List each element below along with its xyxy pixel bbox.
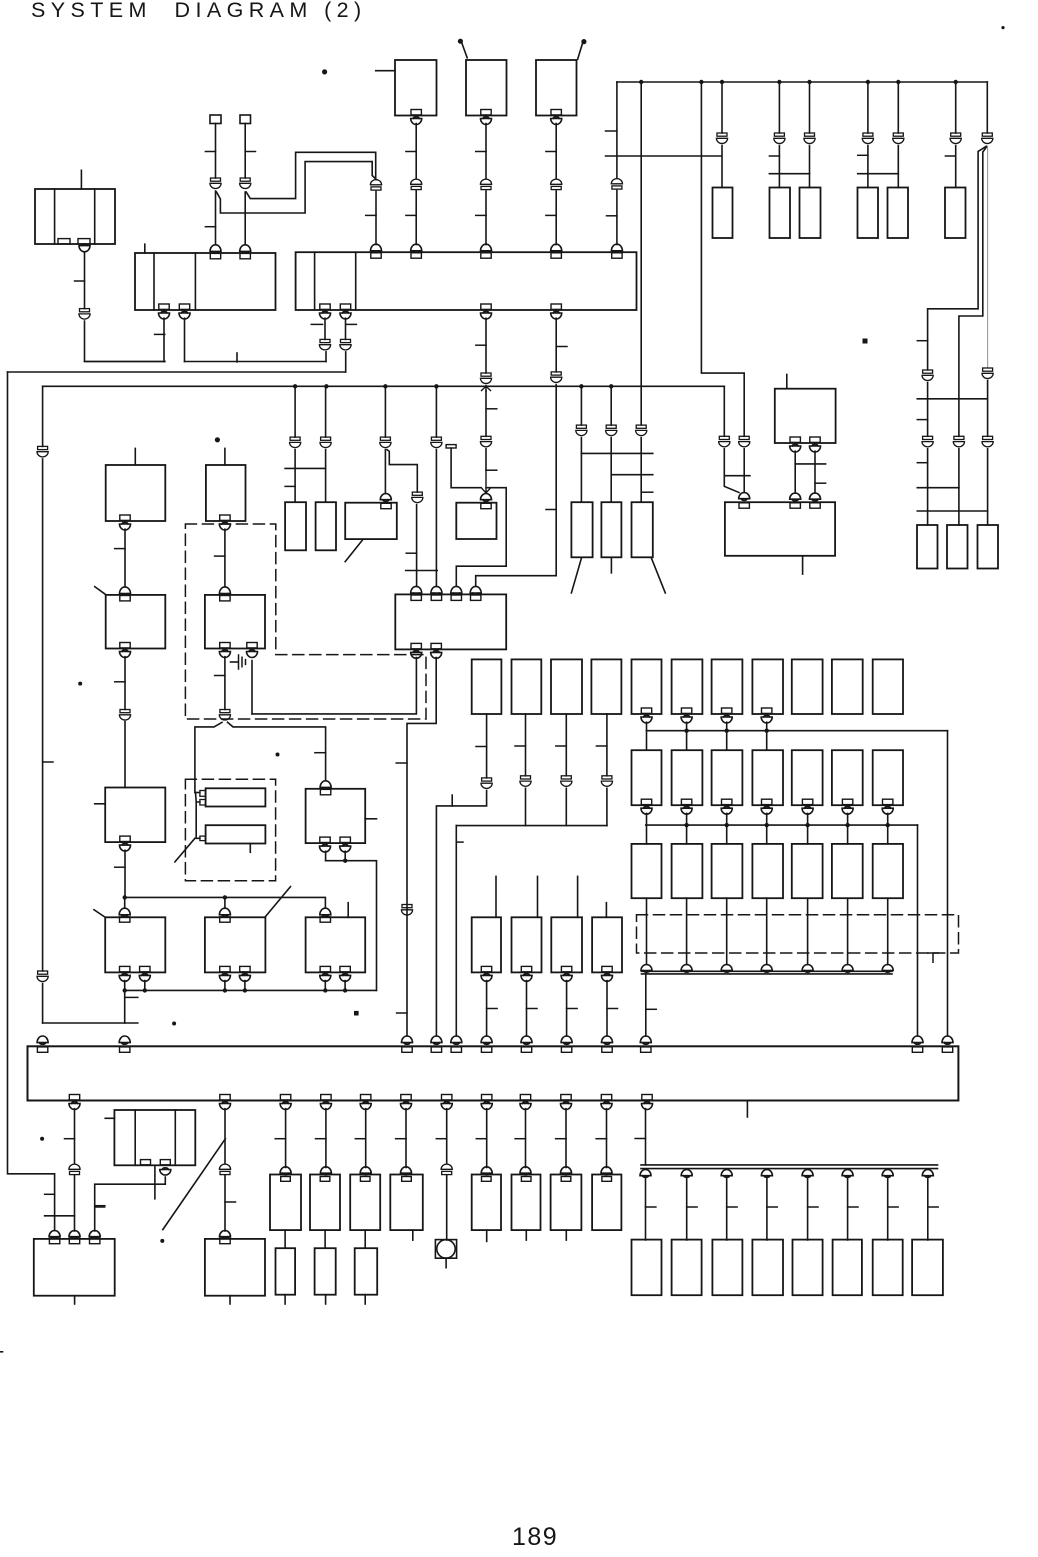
merge crossover x486 y490	[481, 470, 490, 493]
connector arch into main box x607	[602, 1036, 613, 1044]
bottom box x550	[551, 1175, 582, 1231]
fuse box x868	[858, 188, 879, 239]
connector arch on double bus x847	[842, 965, 853, 973]
pin bottom of main box x647	[642, 1095, 653, 1110]
lower box x354	[355, 1248, 378, 1295]
bottom right box x752	[752, 1240, 783, 1296]
bus line y386 (main feed)	[43, 385, 725, 387]
top supply bus	[617, 81, 987, 83]
inline connector on wire x611	[606, 425, 617, 436]
pin bottom of block L x184	[179, 304, 190, 319]
pin bottom of main box x606	[601, 1095, 612, 1110]
connector arch below double bus x847	[842, 1170, 853, 1178]
marker dot x80	[78, 682, 82, 686]
inline connector on wire x345	[340, 339, 351, 350]
pin bottom of block L x164	[159, 304, 170, 319]
fuse box x809	[800, 188, 821, 239]
wire x616 from top bus corner	[616, 82, 618, 178]
thin box G2	[206, 825, 266, 843]
link wire y1215.8	[45, 1215, 75, 1217]
pin P1 of top-left box	[58, 239, 70, 244]
pin on main box x947	[942, 1047, 952, 1052]
stub on box I top right	[347, 903, 349, 918]
load box row2 x752	[752, 750, 783, 805]
wire I x325 to bus y990	[324, 981, 326, 991]
bottom right box x792	[793, 1240, 823, 1296]
tick on wire x285 y1138	[275, 1138, 285, 1140]
sensor box K	[472, 917, 501, 972]
branch wire right to box H	[228, 722, 326, 779]
junction dot on bus y825	[805, 823, 809, 827]
pointer line at box E	[265, 887, 290, 917]
control box B2	[205, 595, 265, 649]
tick on wire x815	[815, 482, 826, 484]
pin on main box x407	[402, 1047, 412, 1052]
tick on wire x766 y1207	[767, 1206, 777, 1208]
inline connector on wire x486	[480, 179, 491, 189]
wire x744 down	[743, 449, 745, 493]
divider in junction block R	[314, 252, 316, 310]
wire x325 below box H	[325, 851, 327, 860]
wire x807 to double bus	[807, 898, 809, 964]
junction dot on bus y730	[684, 729, 688, 733]
pointer line at flat control box	[345, 540, 362, 561]
wire x647 through double bus	[645, 1109, 647, 1165]
wire x566 to main box	[566, 981, 568, 1036]
control box A	[106, 465, 166, 521]
wire x42 long run	[42, 459, 44, 971]
pin bottom of row2 box x847	[842, 799, 853, 814]
load box row1 x551	[551, 659, 582, 714]
small tick mark y1205	[96, 1205, 105, 1207]
load box row1 x872	[873, 659, 903, 714]
divider in junction block R	[355, 252, 357, 310]
wire x726 to bus y825	[726, 813, 728, 844]
junction dot on top bus	[866, 80, 870, 84]
wire x417 down	[416, 505, 418, 587]
wire x988 from top bus corner	[986, 82, 988, 133]
pin bottom of box I x325	[320, 966, 331, 981]
junction dot on bus y386	[293, 384, 297, 388]
wire x525 to main box	[526, 981, 528, 1036]
pin on main box x566	[561, 1047, 571, 1052]
stub below lamp symbol	[445, 1258, 447, 1267]
wire x456 from bus to main box	[455, 826, 457, 1036]
dashed option group box	[637, 915, 959, 953]
load box row3 x831	[832, 844, 863, 898]
stub on relay box TR top	[786, 375, 788, 389]
inline connector on wire x486 y778	[481, 778, 492, 788]
connector arch on ecu box x744	[739, 493, 750, 501]
wire x385 to control box	[384, 450, 386, 494]
wire x646 to bus y825	[646, 813, 648, 844]
wire x809 from top bus	[809, 82, 811, 133]
wire x525 to bus y825.6	[525, 788, 527, 825]
connector arch on bottom box x406	[401, 1167, 412, 1175]
link wire y475.7	[725, 475, 750, 477]
control box D	[105, 917, 165, 972]
tick on wire x556	[546, 151, 556, 153]
pin on wide box R top x616	[611, 244, 622, 258]
load box row1 x591	[591, 659, 621, 714]
wire x125 below A2	[124, 657, 126, 710]
wire x295 from bus2	[294, 386, 296, 437]
junction dot on bus y825	[765, 823, 769, 827]
lamp box R2	[947, 525, 968, 569]
tick on wire x525 y746	[515, 745, 526, 747]
wire x581 to box	[580, 438, 582, 503]
inline connector on wire x988	[982, 133, 993, 144]
wire x245 to bus y990	[244, 981, 246, 991]
control box C	[105, 788, 165, 843]
junction dot x345 y860	[343, 859, 347, 863]
load box row1 x471	[472, 659, 502, 714]
pin bottom of box E x245	[239, 966, 250, 981]
control box B	[206, 465, 246, 521]
junction dot on bus y386	[383, 384, 387, 388]
pin bottom of main box x566	[561, 1095, 572, 1110]
wire x701 from top bus	[701, 82, 744, 436]
wire step from small box area	[456, 488, 506, 586]
wire from square S1	[215, 124, 217, 179]
wire x556 down	[555, 318, 557, 372]
bottom right box x872	[873, 1240, 903, 1296]
stub above wire y806	[451, 795, 453, 806]
pin on center box top x416	[411, 586, 422, 600]
wire x486 from relay box	[485, 124, 487, 179]
inline connector on wire x606 y776	[601, 776, 612, 787]
inline connector on wire x416	[411, 179, 422, 189]
wire x225 below B2	[224, 657, 226, 710]
stub below lower box x314	[325, 1295, 327, 1304]
pin bottom of block R x345	[340, 304, 351, 319]
bus2 right corner down x724	[723, 386, 725, 436]
inline connector on wire x809	[804, 133, 815, 144]
wire x726 to double bus	[726, 898, 728, 964]
pin bottom of main box x285	[280, 1095, 291, 1110]
load box row1 x752	[752, 659, 783, 714]
pin at bottom of box T2	[481, 110, 492, 125]
inline connector on wire x724	[719, 436, 730, 447]
wire x74 to P1	[74, 1176, 76, 1232]
bottom right box x671	[672, 1240, 702, 1296]
divider in box F	[174, 1110, 176, 1165]
connector arch into main box x645	[640, 1036, 651, 1044]
connector arch on double bus x887	[882, 965, 893, 973]
sensor box x551 y917	[551, 917, 582, 972]
tick on wire x225 y675	[215, 675, 225, 677]
pin bottom of main box x325	[320, 1095, 331, 1110]
pin bottom of block R x556	[551, 304, 562, 319]
tick on wire x325	[311, 323, 322, 325]
lamp box R1	[917, 525, 938, 569]
wire x807 to bottom box	[807, 1178, 809, 1241]
tick on wire x365 y1138	[355, 1138, 365, 1140]
wire x225 from bus y897	[224, 897, 226, 907]
marker dot x277	[276, 753, 280, 757]
pin bottom of center box x416	[411, 643, 422, 658]
stub above wire y361.5	[236, 353, 238, 362]
wire x616 to wide box R	[616, 191, 618, 245]
pin bottom of sensor box x606	[602, 966, 613, 981]
divider in junction block L	[153, 253, 155, 310]
tick on wire x927	[917, 340, 927, 342]
junction dot on top bus	[807, 80, 811, 84]
pin bottom of box H x325	[320, 837, 331, 852]
wire into G pins	[195, 792, 200, 794]
connector arch on ecu box x795	[790, 493, 801, 501]
wire x958 to lamp box	[958, 449, 960, 525]
divider line in top-left box	[54, 189, 56, 244]
tick on wire x406 y1138	[396, 1138, 406, 1140]
sensor box x295	[285, 502, 306, 550]
connector arch on bottom box x285	[280, 1167, 291, 1175]
connector arch into main box x486	[481, 1036, 492, 1044]
wire x325 to sensor box	[325, 450, 327, 503]
wire x956 to fuse box	[955, 146, 957, 188]
tick on wire x566 y746	[556, 745, 567, 747]
pin bottom of main box x486	[481, 1095, 492, 1110]
wire x809 to fuse box	[809, 146, 811, 188]
wire x779 from top bus	[778, 82, 780, 133]
wire x887 to bus y825	[887, 813, 889, 844]
fuse box x722	[713, 188, 733, 239]
switch box H	[306, 789, 366, 843]
pin on bottom box x285	[281, 1177, 291, 1182]
tick on wire x345	[346, 323, 357, 325]
collector bus y825 right	[646, 824, 918, 826]
inline connector on wire x84	[79, 309, 90, 319]
tick on wire x486 y1008	[487, 1008, 498, 1010]
tick on wire x847 y1207	[848, 1206, 858, 1208]
pin on main box x607	[602, 1047, 612, 1052]
T mark below dashed box	[928, 953, 939, 962]
bottom double bus line B	[641, 1168, 938, 1170]
connector arch below double bus x927	[922, 1170, 933, 1178]
wire x325 to y361	[325, 352, 327, 362]
pin bottom of box F x165	[160, 1160, 170, 1165]
wire x295 to sensor box	[294, 450, 296, 503]
inline connector on wire S1	[210, 178, 221, 189]
tick on wire x645 y1008	[646, 1008, 657, 1010]
control box E	[205, 917, 266, 972]
inline connector on wire x779	[774, 133, 785, 144]
wire y361.5 right segment	[185, 361, 327, 363]
wire x987 to lamp box	[987, 449, 989, 525]
lamp box R3	[978, 525, 999, 569]
pin bottom of sensor box x566	[561, 966, 572, 981]
link wire y860.7	[326, 861, 377, 991]
wire x556 to wide box R	[555, 191, 557, 245]
collector bus y825.6 left	[456, 825, 607, 827]
connector arch on P1 x54	[49, 1231, 60, 1239]
pin bottom of box A2	[120, 643, 131, 658]
marker dot left of T1	[322, 69, 327, 74]
connector arch on double bus x807	[802, 965, 813, 973]
connector arch into main box x947	[942, 1036, 953, 1044]
pin on ecu box top x744	[739, 503, 749, 508]
junction dot on top bus	[954, 80, 958, 84]
inline connector x958 y436	[953, 436, 964, 447]
pin on box H top	[320, 781, 331, 795]
inline connector on wire x385	[380, 437, 391, 447]
stub below bottom box x390	[412, 1230, 414, 1240]
bottom double bus line A	[641, 1164, 938, 1166]
title text	[31, 0, 367, 23]
connector arch on double bus x686	[681, 965, 692, 973]
tick on wire x566 y1138	[556, 1138, 566, 1140]
pin bottom of box B	[219, 515, 230, 530]
amplifier box P2	[205, 1239, 265, 1296]
inline connector on wire S2	[240, 178, 251, 189]
pin bottom of sensor box x525	[521, 966, 532, 981]
inline connector on wire x868	[862, 133, 873, 144]
wire x385 from bus2	[384, 386, 386, 437]
tick on wire x376	[366, 214, 376, 216]
wire x927 to bottom box	[927, 1178, 929, 1241]
branch wire to x927 (step path)	[928, 147, 986, 371]
pin on wide box R top x486	[481, 244, 492, 258]
pin on control box top x386	[381, 503, 391, 508]
pin square G1-1	[200, 791, 206, 797]
stub wire on top of top-left box	[80, 170, 82, 189]
junction dot on bus y990	[343, 988, 347, 992]
pin bottom of box H x345	[340, 837, 351, 852]
wire x868 from top bus	[867, 82, 869, 133]
pointer line at box A2	[95, 587, 106, 595]
wire x887 to double bus	[887, 898, 889, 964]
pin bottom of box E x225	[219, 966, 230, 981]
wire x686 to bus y825	[686, 813, 688, 844]
junction dot x124 y897	[123, 895, 127, 899]
branch wire left to G-block	[195, 722, 222, 792]
wire x606 below row1 box	[606, 714, 608, 776]
double bus line B	[642, 973, 893, 975]
load box row3 x872	[873, 844, 903, 898]
wire x525 down	[525, 1109, 527, 1168]
junction dot x224 y897	[223, 895, 227, 899]
junction dot on top bus	[720, 80, 724, 84]
divider in box F	[134, 1110, 136, 1165]
wire x486 K to main box	[486, 981, 488, 1036]
junction link y1023	[43, 1022, 138, 1024]
pointer line at G block	[175, 838, 195, 862]
inline connector on wire x486 y373	[480, 373, 491, 384]
connector arch on small box x486	[481, 494, 492, 502]
inline connector on wire x988 lower	[982, 368, 993, 379]
connector arch into main box x917	[912, 1036, 923, 1044]
leader line from dot to T2	[462, 44, 467, 58]
pin at bottom of box T1	[411, 110, 422, 125]
inline connector on wire x225 low	[219, 1164, 230, 1174]
tall box x611	[601, 502, 621, 557]
link wire y453	[581, 452, 652, 454]
bottom right box x631	[632, 1240, 662, 1296]
tick on wire x295	[285, 485, 295, 487]
wire x416 from relay box	[415, 124, 417, 179]
pin on box P2 top	[220, 1238, 230, 1243]
marker dot x174 y1023	[172, 1022, 176, 1026]
junction block R	[296, 252, 637, 310]
pin on wide box L top x245	[240, 245, 251, 259]
inline connector on wire x42 lower	[37, 971, 48, 982]
wire x606 down	[606, 1109, 608, 1168]
connector arch on double bus x726	[721, 965, 732, 973]
junction dot on bus y825	[725, 823, 729, 827]
marker dot x162 y1240	[160, 1239, 164, 1243]
wire x225 down	[224, 1109, 226, 1164]
marker dot x217	[215, 437, 220, 442]
wire x766 to bus y825	[766, 813, 768, 844]
connector arch into main box x125	[119, 1036, 130, 1044]
stub wire left of box T1	[376, 70, 395, 72]
tick on wire x486 y470	[486, 469, 497, 471]
wire x184 down	[184, 318, 186, 361]
inline connector on wire x42	[37, 446, 48, 457]
pin on center box top x476	[470, 586, 481, 600]
pin bottom of block R x325	[320, 304, 331, 319]
connector arch into main box x456	[451, 1036, 462, 1044]
tick on wire x486 y408	[486, 408, 497, 410]
stepped wire from S2 connector	[246, 152, 376, 198]
connector arch on P1 x94	[89, 1231, 100, 1239]
connector arch on ecu box x815	[810, 493, 821, 501]
tick on wire S1	[205, 151, 215, 153]
wire x446 down	[446, 1109, 448, 1164]
stub left of box F	[105, 1117, 114, 1119]
inline connector on wire x898	[893, 133, 904, 144]
load box row1 x711	[712, 659, 743, 714]
capacitor bar x451	[446, 445, 456, 448]
wire x766 to bus y730	[766, 722, 768, 750]
tick on wire x486	[476, 151, 486, 153]
wire x94 from box F	[95, 1177, 166, 1231]
pin bottom of row1 box x726	[721, 708, 732, 723]
fuse box x956	[945, 188, 966, 239]
load box row2 x631	[632, 750, 662, 805]
pin bottom of TR x795	[790, 437, 801, 452]
bottom right box x712	[712, 1240, 742, 1296]
wire x807 to bus y825	[807, 813, 809, 844]
connector arch on bottom box x525	[520, 1167, 531, 1175]
link box x350 to lower	[364, 1230, 366, 1248]
connector arch below double bus x686	[681, 1170, 692, 1178]
tick on wire x556 y509	[546, 509, 556, 511]
tick on wire x84	[75, 280, 85, 282]
relay box T3	[536, 60, 577, 116]
connector joining stepped wires	[370, 180, 381, 190]
wire x164 down	[163, 318, 165, 361]
lower box x275	[276, 1248, 296, 1295]
inline connector on wire x417	[412, 492, 423, 502]
lamp symbol (circle in square)	[435, 1240, 456, 1259]
wire x416 to wide box R	[415, 191, 417, 245]
relay box T1	[395, 60, 437, 116]
divider in junction block L	[194, 253, 196, 310]
small control box x457	[456, 503, 496, 539]
pin bottom of row2 box x726	[721, 799, 732, 814]
wire x345 below box H	[344, 851, 346, 860]
divider line in top-left box	[94, 189, 96, 244]
pointer line at box D	[94, 910, 105, 918]
inline connector on wire x325	[319, 339, 330, 350]
square marker x865	[863, 339, 868, 344]
terminal square S1	[210, 115, 221, 124]
link box x310 to lower	[324, 1230, 326, 1248]
connector arch below double bus x645	[640, 1170, 651, 1178]
tick on wire x74	[65, 1138, 75, 1140]
tick on wire x416 lower	[406, 214, 416, 216]
